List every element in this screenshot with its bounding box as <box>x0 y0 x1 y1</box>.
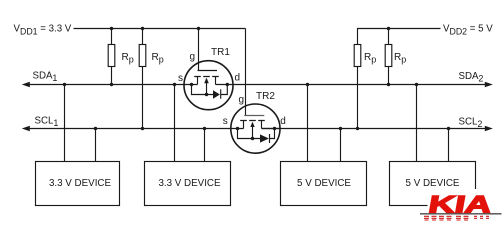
wire box4 to SDA2 <box>416 85 418 162</box>
svg-text:g: g <box>239 95 245 106</box>
junction dot SCL1-box2 <box>203 127 206 130</box>
resistor Rp4 <box>385 45 392 67</box>
junction dot SCL1-Rp2 <box>141 127 144 130</box>
svg-text:Rp: Rp <box>152 52 164 65</box>
arrow SCL1 left <box>22 126 30 132</box>
resistor Rp3 <box>354 45 361 67</box>
wire box4 to SCL2 <box>448 129 450 162</box>
svg-text:Rp: Rp <box>364 52 376 65</box>
gate bar TR2 <box>244 115 264 117</box>
device box2 3.3 V DEVICE <box>145 162 231 206</box>
junction dot SCL2-box3 <box>339 127 342 130</box>
wire TR1 gate lead from VDD1 rail <box>198 29 200 71</box>
svg-text:SDA1: SDA1 <box>33 71 58 84</box>
arrow SCL2 right <box>485 126 493 132</box>
svg-text:d: d <box>235 73 241 84</box>
wire TR2 gate lead from VDD1 rail <box>245 29 247 116</box>
transistor TR1 (MOS-FET symbol) <box>184 61 233 110</box>
arrow SDA2 right <box>485 82 493 88</box>
junction dot SDA2-Rp4 <box>387 83 390 86</box>
wire box2 to SCL1 <box>204 129 206 162</box>
svg-text:Rp: Rp <box>394 52 406 65</box>
junction dot SDA1-box1 <box>63 83 66 86</box>
svg-text:SCL2: SCL2 <box>459 117 483 130</box>
wire SDA1 line <box>26 84 198 86</box>
svg-text:3.3 V DEVICE: 3.3 V DEVICE <box>49 178 112 189</box>
junction dot SDA1-box2 <box>173 83 176 86</box>
device box4 5 V DEVICE <box>390 162 476 206</box>
svg-text:g: g <box>190 52 196 63</box>
wire Rp1 lead <box>111 29 113 85</box>
junction dot VDD1-TR1 gate <box>197 27 200 30</box>
wire box1 to SCL1 <box>95 129 97 162</box>
junction dot SCL1-box1 <box>94 127 97 130</box>
watermark logo KIA (red) <box>420 189 504 223</box>
wire VDD1 rail <box>74 28 246 30</box>
wire Rp4 lead <box>388 29 390 85</box>
resistor Rp2 <box>139 45 146 67</box>
junction dot VDD2-Rp4 <box>387 27 390 30</box>
svg-text:Rp: Rp <box>122 52 134 65</box>
svg-text:TR2: TR2 <box>256 91 275 102</box>
svg-text:s: s <box>223 116 228 127</box>
transistor TR2 (MOS-FET symbol) <box>231 104 280 153</box>
junction dot SDA2-box3 <box>306 83 309 86</box>
wire VDD2 rail and Rp3 lead <box>358 29 441 129</box>
device box3 5 V DEVICE <box>281 162 367 206</box>
junction dot SCL2-Rp3 <box>356 127 359 130</box>
junction dot SDA1-Rp1 <box>110 83 113 86</box>
svg-text:5 V DEVICE: 5 V DEVICE <box>297 178 351 189</box>
wire SDA2 line <box>216 84 487 86</box>
svg-text:d: d <box>280 116 286 127</box>
svg-text:SCL1: SCL1 <box>35 116 59 129</box>
svg-text:3.3 V DEVICE: 3.3 V DEVICE <box>158 178 221 189</box>
junction dot SDA2-box4 <box>415 83 418 86</box>
wire Rp2 lead <box>142 29 144 129</box>
wire SCL2 line <box>262 128 487 130</box>
svg-text:TR1: TR1 <box>211 47 230 58</box>
svg-text:SDA2: SDA2 <box>459 71 484 84</box>
gate bar TR1 <box>198 70 218 72</box>
wire SCL1 line <box>26 128 244 130</box>
arrow SDA1 left <box>22 82 30 88</box>
resistor Rp1 <box>108 45 115 67</box>
junction dot SCL2-box4 <box>447 127 450 130</box>
device box1 3.3 V DEVICE <box>36 162 120 206</box>
wire box3 to SCL2 <box>340 129 342 162</box>
wire box2 to SDA1 <box>174 85 176 162</box>
wire box1 to SDA1 <box>64 85 66 162</box>
svg-text:5 V DEVICE: 5 V DEVICE <box>406 178 460 189</box>
junction dot VDD1-Rp2 <box>141 27 144 30</box>
svg-text:s: s <box>178 73 183 84</box>
wire box3 to SDA2 <box>307 85 309 162</box>
junction dot VDD1-Rp1 <box>110 27 113 30</box>
